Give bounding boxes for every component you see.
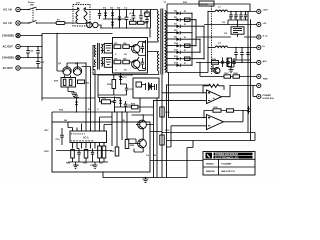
resistor R30 <box>160 107 170 117</box>
capacitor C1 <box>124 8 128 28</box>
wire -12 line <box>204 20 257 25</box>
wire driver tops <box>67 62 86 64</box>
wire HV rail to power box <box>42 33 113 35</box>
wire ic pin runs <box>68 112 112 128</box>
node secondary buses <box>191 12 208 73</box>
capacitor C6 <box>141 58 144 68</box>
svg-text:FAN: FAN <box>263 78 268 81</box>
resistor R23 <box>83 150 88 165</box>
wire long vertical A <box>153 101 155 178</box>
resistor R2 <box>136 21 148 24</box>
capacitor C32 tall <box>227 58 232 67</box>
wire fan <box>200 76 257 78</box>
diode D3 <box>111 19 114 28</box>
wire opamp feeds <box>154 73 211 148</box>
terminal -12 <box>257 22 267 26</box>
IC section outer box <box>52 122 150 172</box>
wire right verticals inner <box>112 112 127 147</box>
wire CHASSIS 2 <box>20 57 42 59</box>
capacitor C29 <box>232 58 235 67</box>
ground bottom rail <box>143 177 149 183</box>
resistor network box <box>61 78 76 88</box>
svg-text:R# 103: R# 103 <box>201 4 209 6</box>
capacitor C26 <box>240 47 243 60</box>
capacitor C31 <box>221 58 224 68</box>
terminal AC IN 1 <box>3 7 20 11</box>
op-amp U3 <box>200 111 244 130</box>
wire primary top drop <box>150 10 152 29</box>
wire bridge bottom rail <box>100 27 150 29</box>
wire bottom rail <box>103 172 187 178</box>
resistor R14 <box>107 80 116 89</box>
resistor R19 <box>110 147 119 156</box>
wire long vertical C <box>161 75 163 178</box>
wire box to IC section <box>139 98 141 112</box>
wire bridge to box <box>149 28 151 38</box>
capacitor C17 <box>234 11 237 20</box>
resistor R27 <box>224 73 231 78</box>
capacitor C25 <box>234 47 237 60</box>
terminal +12V <box>257 9 269 13</box>
diode D14 <box>166 62 192 67</box>
wire chassis bus vertical <box>20 34 42 101</box>
capacitor C11 <box>75 149 81 168</box>
capacitor C21 <box>26 46 34 58</box>
partition dashed line <box>211 6 213 74</box>
resistor R22 <box>66 150 74 165</box>
svg-text:CHASSIS: CHASSIS <box>2 56 14 60</box>
transistor Q2 <box>129 60 140 69</box>
svg-text:PQ 4848T: PQ 4848T <box>222 162 233 165</box>
ground secondary <box>210 65 215 72</box>
wire aux winding down <box>93 72 98 96</box>
svg-text:+12V: +12V <box>263 10 269 12</box>
wire th cluster <box>98 95 126 112</box>
diode D5 <box>166 11 192 15</box>
wire AC OUT 1 <box>20 46 42 48</box>
capacitor C24 <box>99 146 106 165</box>
wire +5 cap ground <box>232 59 251 61</box>
svg-text:DESIGN: DESIGN <box>206 171 215 173</box>
value specks ladder <box>184 11 186 65</box>
capacitor C22 <box>36 46 40 58</box>
op-amp U2 <box>199 85 231 104</box>
power stage box <box>113 38 148 74</box>
snubber box upper <box>104 44 112 54</box>
wire bus bottom <box>162 133 255 179</box>
wire ic ground row <box>68 161 108 163</box>
diode D15 <box>75 98 78 113</box>
capacitor C30 <box>227 109 234 112</box>
inductor L1 <box>207 7 256 12</box>
resistor R5 <box>114 58 121 64</box>
driver stage rail <box>57 34 63 72</box>
wire secondary rail <box>166 11 168 73</box>
IC1 PWM controller <box>70 117 107 149</box>
svg-text:1K: 1K <box>124 54 127 56</box>
transistor Q9 <box>214 68 220 74</box>
capacitor C28 <box>226 58 229 67</box>
svg-text:8 7 6 5 4 3 2 1: 8 7 6 5 4 3 2 1 <box>71 133 86 136</box>
ground IC row <box>73 162 78 168</box>
regulator box VR1 <box>224 27 244 35</box>
svg-text:POWER: POWER <box>263 95 272 97</box>
terminal CHASSIS 1 <box>2 33 20 37</box>
wire right bus down <box>248 12 253 141</box>
wire power good <box>253 96 257 98</box>
resistor R34 <box>0 0 1 1</box>
wire bridge top rail <box>90 9 158 11</box>
diode D4 <box>117 7 121 28</box>
ground IC row 2 <box>93 162 98 168</box>
transistor Q7 <box>136 115 146 134</box>
resistor R20 <box>125 140 135 149</box>
label box top <box>199 1 214 6</box>
terminal AC IN 2 <box>3 21 20 25</box>
diode D7 <box>166 24 204 28</box>
diode D16 <box>119 98 122 108</box>
fuse F1 <box>37 19 74 24</box>
secondary top line <box>167 4 250 12</box>
thermistor TH1 <box>87 22 101 28</box>
svg-text:AC IN: AC IN <box>3 21 12 25</box>
terminal AC OUT 1 <box>3 44 21 48</box>
terminal CHASSIS 2 <box>2 55 20 59</box>
capacitor C16 <box>229 11 232 20</box>
node bridge junctions <box>105 9 134 29</box>
diode D9 <box>166 37 200 41</box>
wire AC OUT 2 <box>20 67 42 69</box>
title block <box>203 152 255 176</box>
resistor R31 <box>160 130 170 145</box>
inductor L3 <box>207 43 256 49</box>
transformer T1 main <box>157 2 167 75</box>
wire box internal rail <box>56 150 112 152</box>
capacitor C19 <box>244 11 247 20</box>
transistor Q4 <box>73 62 81 75</box>
wire G line <box>196 20 257 37</box>
terminal G-5 <box>257 35 268 39</box>
value specks power box <box>115 54 127 72</box>
terminal AC OUT 2 <box>3 66 21 70</box>
wire long vertical B <box>156 98 158 178</box>
resistor R4 <box>123 42 130 48</box>
resistor R3 <box>114 43 121 48</box>
terminal aux <box>257 83 261 87</box>
resistor R35 <box>213 107 221 112</box>
line filter LF1 <box>73 3 90 26</box>
capacitor C10 <box>56 128 64 145</box>
svg-text:AC OUT: AC OUT <box>3 66 14 70</box>
resistor R11 <box>78 80 91 85</box>
svg-text:G +5: G +5 <box>263 35 269 37</box>
wire collector rail <box>137 40 145 71</box>
capacitor C27 <box>246 47 249 60</box>
svg-text:1K: 1K <box>124 70 127 72</box>
svg-text:GOOD SIG.: GOOD SIG. <box>263 98 275 100</box>
snubber primary <box>145 10 149 29</box>
capacitor C13 <box>125 84 133 95</box>
diode D12 <box>166 56 204 60</box>
wire bridge mid rail <box>103 18 126 20</box>
wire driver ground rail <box>42 75 95 98</box>
ground secondary 2 <box>228 67 234 73</box>
diode D11 <box>166 50 200 54</box>
wire aux node <box>98 73 133 95</box>
transistor Q3 <box>58 63 71 75</box>
svg-text:AC OUT: AC OUT <box>3 45 14 49</box>
resistor R24 <box>98 146 102 162</box>
wire secondary common <box>167 72 208 74</box>
terminal +5 <box>257 45 266 49</box>
diode D1 <box>103 8 107 19</box>
capacitor C2 <box>129 10 135 22</box>
diode D2 <box>110 8 114 19</box>
ground D15 <box>74 94 79 97</box>
resistor R15 <box>126 104 154 109</box>
svg-text:A/G: A/G <box>263 60 267 63</box>
capacitor C14 <box>113 97 121 108</box>
wire T1 primary pins <box>93 10 159 75</box>
svg-text:CHASSIS: CHASSIS <box>2 34 14 38</box>
terminal FAN <box>257 74 268 80</box>
wire long vertical D <box>166 85 168 178</box>
transistor Q1 <box>129 44 140 53</box>
resistor R1 <box>130 20 137 25</box>
wire model row <box>150 160 203 162</box>
diode D8 <box>166 30 192 34</box>
terminal A-G <box>257 60 267 65</box>
wire box right links <box>146 125 162 132</box>
wire driver to IC verticals <box>82 63 95 131</box>
capacitor C18 <box>239 11 242 20</box>
svg-text:B46 STD 121: B46 STD 121 <box>222 170 236 173</box>
thermistor TH2 <box>102 98 111 104</box>
diode D20 <box>247 106 250 114</box>
wire aux terminal <box>230 85 257 87</box>
diode D10 <box>166 43 196 47</box>
capacitor C15 <box>124 101 132 110</box>
wire vref top <box>52 112 140 122</box>
wire q7 q8 links <box>127 115 154 152</box>
wire op2 feedback <box>204 111 249 118</box>
wire AG line <box>196 60 257 63</box>
feedback opto box PC1 <box>133 78 159 98</box>
capacitor C23 <box>36 58 45 69</box>
wire AC hot to filter <box>37 9 74 11</box>
resistor R33 feedback <box>202 84 224 93</box>
resistor R28 <box>233 73 240 78</box>
resistor R26 <box>212 59 219 64</box>
switch SW1 Power SW <box>20 2 37 24</box>
capacitor C0 <box>98 10 101 20</box>
diode D6 <box>166 17 196 21</box>
resistor R6 <box>123 58 130 64</box>
ground driver <box>68 92 77 97</box>
snubber box lower <box>104 58 112 68</box>
svg-text:IC-1: IC-1 <box>84 136 90 140</box>
svg-text:MODEL:: MODEL: <box>206 163 215 165</box>
svg-text:9 10 11 12 13 14 15 16: 9 10 11 12 13 14 15 16 <box>71 140 94 143</box>
wire cap ground bar <box>228 19 248 21</box>
transformer T2 drive <box>94 43 102 70</box>
capacitor C5 <box>141 43 144 54</box>
wire T2 pins <box>93 45 104 72</box>
capacitor C12 <box>90 149 95 168</box>
capacitor C3 <box>139 10 148 22</box>
terminal POWER GOOD <box>257 94 275 99</box>
svg-text:AC IN: AC IN <box>3 8 12 12</box>
svg-text:ELECTRONICS LTD.: ELECTRONICS LTD. <box>215 156 239 159</box>
diode D13 <box>119 73 127 84</box>
transistor Q8 <box>136 134 146 152</box>
